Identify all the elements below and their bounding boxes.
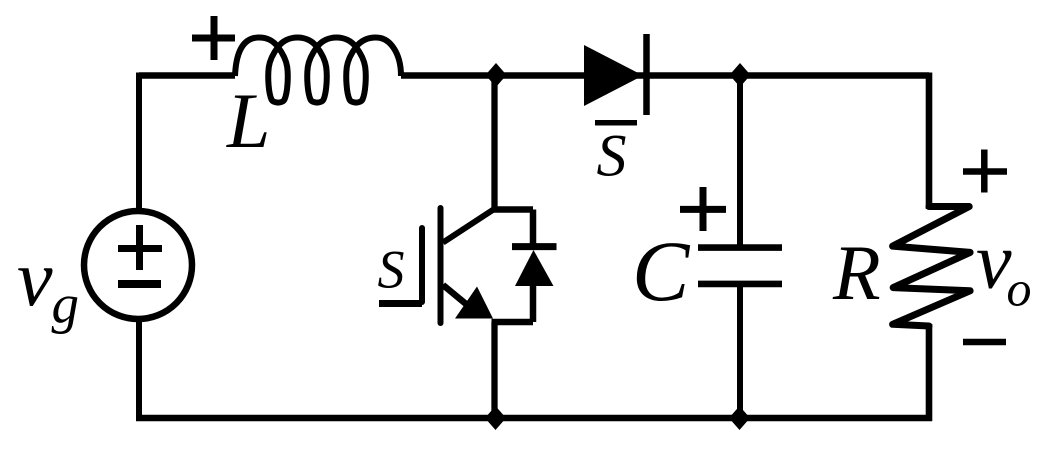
label + (vo) (963, 150, 1007, 193)
igbt top horizontal (492, 206, 534, 213)
vg minus (118, 280, 161, 288)
vg plus (118, 225, 162, 270)
igbt gate bar (419, 228, 425, 302)
wire top rail middle (401, 72, 929, 79)
igbt right branch vertical upper (530, 210, 537, 248)
capacitor C bottom plate (698, 281, 782, 288)
wire left vertical top (136, 73, 142, 212)
wire right vertical top (926, 73, 933, 210)
svg-text:S: S (597, 123, 627, 189)
wire right vertical bottom (926, 324, 933, 421)
node junction bottom-right (729, 406, 750, 430)
wire switch vertical bottom (491, 322, 497, 418)
transistor S (IGBT) (379, 208, 557, 323)
igbt main bar (438, 208, 444, 323)
label + (inductor left) (192, 16, 235, 60)
antiparallel diode triangle (515, 250, 554, 286)
wire capacitor vertical bottom (737, 284, 743, 418)
wire bottom rail (136, 415, 932, 422)
wire top-left rail (139, 72, 235, 79)
capacitor C top plate (698, 244, 782, 251)
label minus (vo) (963, 339, 1006, 346)
svg-text:o: o (1007, 261, 1032, 317)
wire left vertical bottom (136, 319, 142, 421)
svg-text:R: R (832, 229, 881, 316)
antiparallel diode cathode bar (512, 243, 557, 250)
wire capacitor vertical top (737, 76, 743, 248)
igbt collector diagonal (443, 209, 495, 243)
inductor L (235, 38, 401, 103)
diode Sbar cathode bar (643, 34, 650, 115)
igbt gate lead (379, 300, 422, 307)
svg-text:v: v (17, 235, 53, 323)
node junction top-left (486, 63, 507, 87)
igbt emitter arrow (455, 287, 493, 319)
svg-text:L: L (226, 77, 270, 164)
svg-text:g: g (52, 274, 80, 335)
node junction top-right (730, 63, 751, 87)
svg-text:S: S (378, 240, 405, 300)
capacitor plus (680, 187, 726, 231)
igbt right branch vertical lower (530, 286, 537, 322)
label Sbar overbar (595, 120, 637, 126)
voltage source vg circle (84, 211, 192, 319)
igbt emitter diagonal (443, 285, 466, 304)
igbt bottom horizontal (492, 319, 534, 326)
diode Sbar triangle (584, 45, 643, 106)
node junction bottom-left (485, 406, 506, 430)
wire switch vertical top (491, 76, 497, 210)
resistor R zigzag (893, 207, 971, 327)
svg-text:C: C (632, 223, 691, 319)
